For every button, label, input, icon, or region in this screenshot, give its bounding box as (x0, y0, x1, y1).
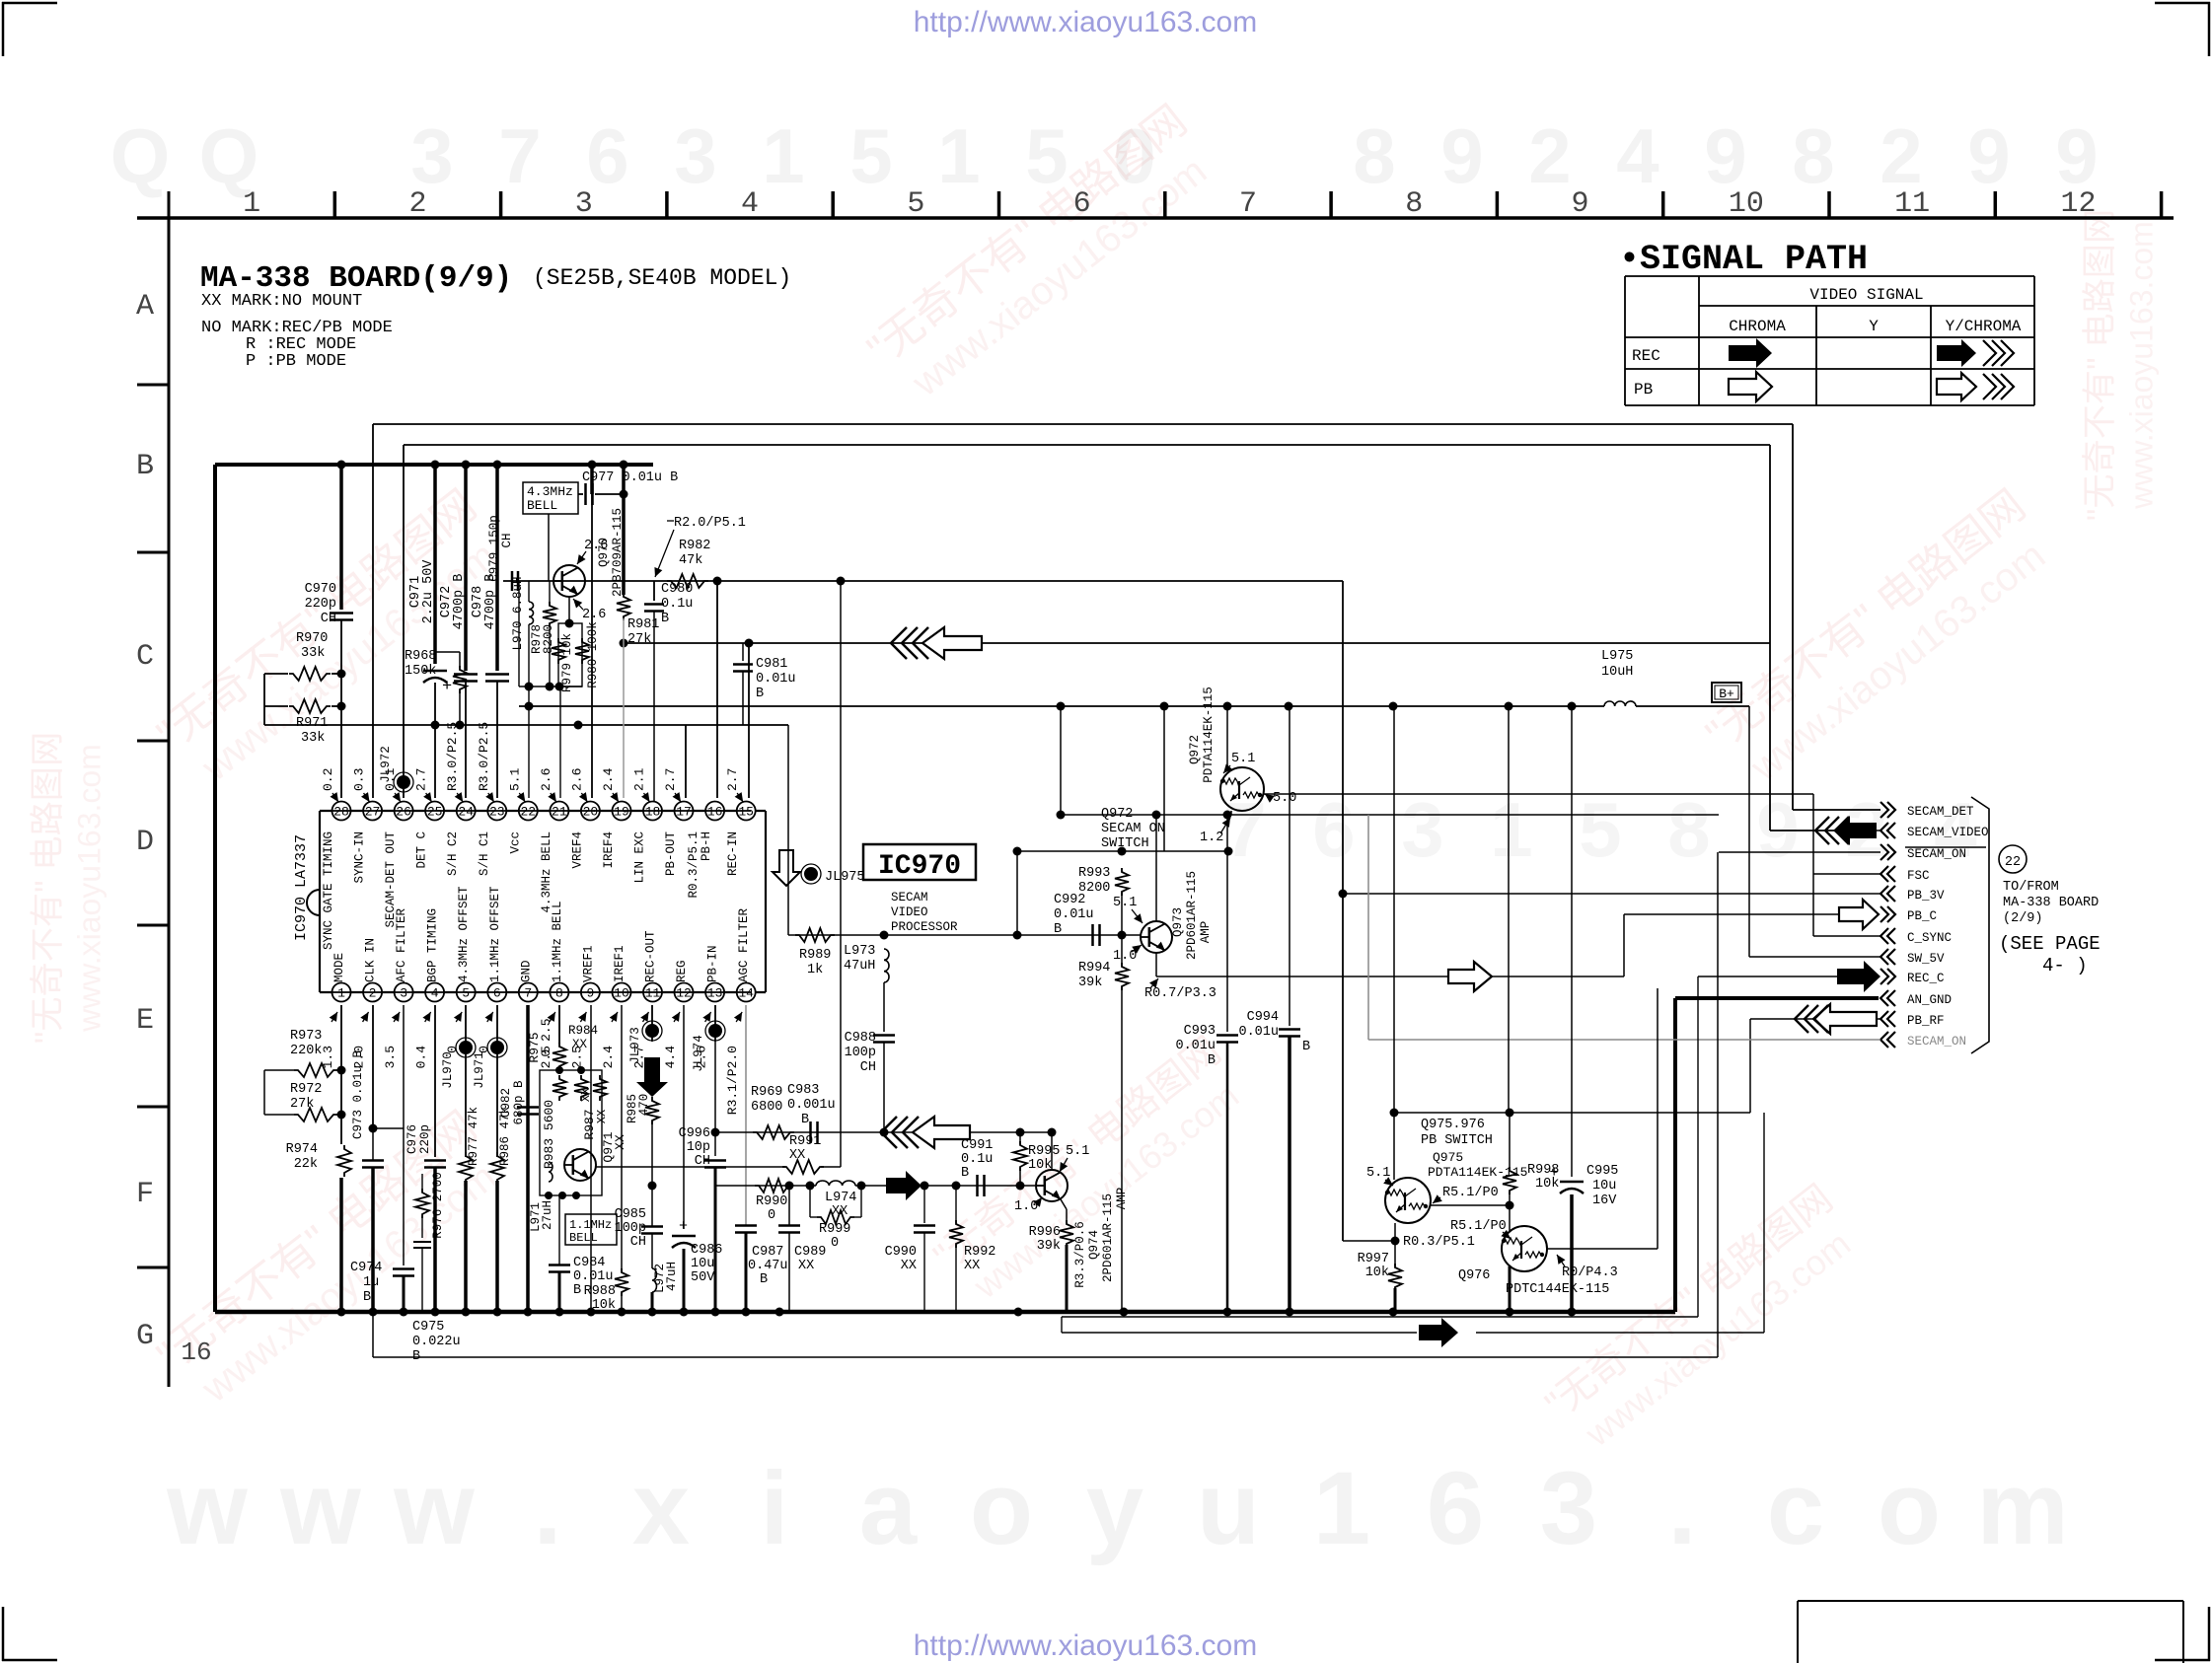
pin 23 (487, 802, 506, 821)
svg-text:Vcc: Vcc (508, 831, 522, 854)
capacitor C979 150p CH (487, 515, 518, 591)
pin 10 name IREF1 (613, 945, 627, 982)
wire pin14 column down gray (745, 1005, 747, 1225)
watermark ghost digits top row (111, 112, 2099, 199)
svg-text:0.1u: 0.1u (661, 597, 693, 612)
connector chevron SECAM_VIDEO at y=842 (1880, 823, 1989, 839)
wire vertical x852 (840, 581, 842, 1167)
pin 13 (705, 983, 724, 1002)
svg-text:JL975: JL975 (825, 870, 865, 885)
svg-text:4- ): 4- ) (2042, 955, 2088, 976)
JL973 test point (628, 1021, 662, 1064)
svg-text:24: 24 (458, 805, 474, 820)
pin 19 name IREF4 (602, 831, 616, 869)
Q973 collector wire (1152, 811, 1161, 922)
svg-text:B+: B+ (1719, 687, 1734, 701)
svg-text:"无奇不有" 电路图网: "无奇不有" 电路图网 (2081, 209, 2119, 521)
svg-text:10: 10 (614, 986, 629, 1001)
svg-text:R972: R972 (290, 1082, 322, 1097)
bell filter box 1.1MHz BELL (565, 1214, 617, 1245)
pin 12 (675, 983, 694, 1002)
svg-text:+: + (1549, 1164, 1559, 1182)
svg-text:XX: XX (595, 1110, 609, 1123)
bell cluster top dots (555, 1066, 585, 1074)
pin 25 (425, 802, 444, 821)
svg-text:AMP: AMP (1115, 1188, 1129, 1210)
svg-text:2.6: 2.6 (582, 608, 606, 622)
capacitor C971 2.2u 50V (408, 465, 452, 725)
Q973 emitter wire (1155, 953, 1157, 976)
wire C975 loop (373, 852, 1718, 1357)
svg-text:0.01u: 0.01u (756, 672, 796, 687)
svg-text:3: 3 (1540, 1451, 1597, 1566)
svg-text:Q975.976: Q975.976 (1421, 1118, 1485, 1132)
wire SECAM_VIDEO long (620, 639, 1771, 831)
pin 16 (705, 802, 724, 821)
resistor R983 5600 (542, 1075, 566, 1169)
wire pin7 GND column (526, 1005, 530, 1312)
Q974 voltage 5.1 (1060, 1144, 1089, 1172)
svg-text:Y: Y (1869, 318, 1879, 335)
wire Q975 base row R5.1/P0 (1431, 1201, 1514, 1210)
resistor R977 47k (459, 1107, 480, 1312)
svg-text:REC: REC (1632, 347, 1660, 365)
svg-text:www.xiaoyu163.com: www.xiaoyu163.com (72, 744, 108, 1033)
open right arrow on PB_C wire (1448, 962, 1492, 991)
table row label PB (1634, 381, 1653, 398)
wire REC_C row (1698, 976, 1837, 977)
pin 6 (487, 983, 506, 1002)
wire Q976 emitter to bus (1509, 1266, 1512, 1312)
table PB y/chroma open arrow with chevrons (1937, 373, 2014, 400)
inductor L970 6.8uH (511, 576, 534, 798)
svg-text:PB_C: PB_C (1907, 909, 1937, 923)
row letter ticks (137, 385, 169, 1267)
svg-text:m: m (1976, 1451, 2068, 1566)
svg-text:CH: CH (500, 533, 514, 547)
row ruler left line (168, 191, 171, 1387)
svg-text:16: 16 (181, 1338, 211, 1367)
Q974 voltage 1.0 (1014, 1197, 1042, 1214)
svg-text:3: 3 (1401, 786, 1443, 873)
svg-text:Q975: Q975 (1433, 1150, 1463, 1165)
svg-text:9: 9 (586, 986, 594, 1001)
svg-text:x: x (632, 1451, 690, 1566)
resistor R988 10k (584, 1268, 628, 1313)
svg-text:1: 1 (937, 112, 980, 199)
svg-text:1: 1 (1490, 786, 1532, 873)
inductor L974 XX (816, 1181, 856, 1219)
pin 17 voltage 2.7 (663, 768, 681, 802)
wire pin16 column PB-H (716, 581, 718, 798)
capacitor C970 220p CH (305, 465, 353, 657)
svg-text:8200: 8200 (542, 624, 555, 654)
pin 5 name 4.3MHz OFFSET (457, 886, 471, 982)
pin 13 voltage 2.6 (695, 1012, 711, 1068)
svg-text:VREF4: VREF4 (570, 831, 584, 869)
svg-text:C990: C990 (885, 1245, 917, 1260)
svg-text:C977 0.01u B: C977 0.01u B (582, 470, 678, 485)
capacitor C993 0.01u B (1175, 815, 1238, 1312)
capacitor C980 0.1u B (644, 581, 693, 804)
wire PB_C row from Q973 (1156, 914, 1843, 976)
wire vertical x1180 from B+ rail (1163, 706, 1165, 851)
connector chevron C_SYNC at y=949 (1880, 928, 1952, 945)
svg-text:7: 7 (1239, 187, 1257, 221)
svg-text:XX MARK:NO MOUNT: XX MARK:NO MOUNT (201, 292, 362, 311)
connector chevron SECAM_DET at y=821 (1880, 802, 1974, 819)
B+ box label (1712, 683, 1741, 702)
junction dot L973 top (880, 931, 889, 940)
svg-text:Y/CHROMA: Y/CHROMA (1946, 318, 2022, 335)
svg-text:33k: 33k (301, 646, 325, 661)
capacitor C973 0.01u B (351, 1049, 384, 1312)
wire B+ to R998 column (1506, 706, 1514, 1118)
resistor R985 470 (626, 1094, 659, 1191)
pin 6 voltage 0 (477, 1012, 493, 1053)
IC970 SECAM VIDEO PROCESSOR label (891, 891, 958, 934)
wire pin9 column down (590, 1005, 592, 1312)
svg-text:17: 17 (676, 805, 692, 820)
Q972 voltage 5.0 (1265, 791, 1296, 806)
resistor R981 27k (617, 465, 659, 798)
svg-text:R980 100k: R980 100k (586, 621, 600, 688)
svg-text:C975: C975 (412, 1320, 444, 1335)
svg-text:3: 3 (674, 112, 716, 199)
pin 19 (613, 802, 631, 821)
svg-text:R970: R970 (296, 631, 328, 646)
wire pin18 column (653, 621, 655, 798)
svg-text:BGP TIMING: BGP TIMING (426, 908, 440, 982)
svg-text:27uH: 27uH (541, 1200, 554, 1230)
page number 16 (181, 1338, 211, 1367)
svg-text:2.4: 2.4 (601, 1046, 616, 1069)
svg-text:•SIGNAL PATH: •SIGNAL PATH (1619, 240, 1868, 279)
table header VIDEO SIGNAL (1809, 286, 1923, 304)
Q972 voltage 1.2 (1200, 818, 1230, 845)
pin 5 voltage 0 (445, 1012, 462, 1053)
wire R982 row to right corner (503, 581, 1343, 1241)
svg-text:PB-OUT: PB-OUT (664, 831, 678, 877)
transistor Q974 2PD601AR-115 AMP (1036, 1170, 1129, 1288)
wire pin28 column up (340, 725, 342, 798)
ground bus heavy (215, 1310, 1675, 1315)
pin 25 name DET C (415, 831, 429, 869)
junction dots on B+ distribution rail (525, 702, 1577, 711)
wire pin27 full column (372, 424, 374, 798)
svg-text:2PD601AR-115: 2PD601AR-115 (1185, 871, 1199, 960)
svg-text:Q973: Q973 (1171, 907, 1185, 937)
svg-text:PB: PB (1634, 381, 1653, 398)
pin 1 name MODE (332, 953, 346, 982)
svg-text:http://www.xiaoyu163.com: http://www.xiaoyu163.com (914, 6, 1258, 38)
column ruler line (137, 216, 2174, 220)
svg-text:R990: R990 (756, 1194, 787, 1209)
pin connecting bar bottom row (327, 991, 751, 993)
wire R969 C983 row (715, 1131, 1048, 1133)
svg-text:XX: XX (572, 1038, 588, 1051)
svg-text:1.1MHz OFFSET: 1.1MHz OFFSET (488, 886, 502, 982)
svg-text:2.6: 2.6 (539, 768, 553, 791)
resistor R990 0 (755, 1179, 792, 1223)
capacitor C976 220p (406, 1124, 446, 1312)
capacitor C992 0.01u B (1054, 893, 1100, 946)
resistor R984 XX (568, 1024, 598, 1102)
solid right arrow lower row (886, 1171, 922, 1200)
svg-text:47uH: 47uH (665, 1262, 679, 1291)
svg-text:C970: C970 (305, 582, 336, 597)
svg-text:C982: C982 (499, 1088, 513, 1118)
svg-text:1: 1 (337, 986, 345, 1001)
capacitor C977 0.01u B (578, 465, 678, 505)
pin 9 voltage 2.5 (569, 1012, 586, 1068)
svg-text:A: A (136, 290, 154, 324)
legend XX MARK:NO MOUNT (201, 292, 362, 311)
svg-text:PB-IN: PB-IN (706, 945, 720, 982)
svg-text:.: . (533, 1451, 561, 1566)
svg-text:R979 10k: R979 10k (560, 633, 574, 692)
wire SECAM_ON feed row (1057, 811, 1720, 820)
resistor R982 47k (667, 539, 710, 588)
svg-text:IREF1: IREF1 (613, 945, 627, 982)
capacitor C975 0.022u B label (412, 1320, 461, 1364)
connector chevron AN_GND at y=1012 (1880, 990, 1952, 1007)
svg-text:3.5: 3.5 (383, 1046, 398, 1068)
svg-text:R3.0/P2.5: R3.0/P2.5 (445, 722, 460, 791)
svg-text:7: 7 (498, 112, 541, 199)
svg-text:o: o (1878, 1451, 1941, 1566)
svg-text:w: w (279, 1451, 361, 1566)
IC970 internal name label (293, 834, 310, 941)
corner bracket bottom-right (2155, 1607, 2210, 1661)
svg-text:33k: 33k (301, 731, 325, 746)
pin 18 (643, 802, 662, 821)
svg-text:JL972: JL972 (379, 746, 393, 783)
svg-text:MA-338 BOARD: MA-338 BOARD (2003, 896, 2099, 910)
pin 9 (581, 983, 600, 1002)
resistor R992 XX (949, 1186, 995, 1312)
svg-text:w: w (393, 1451, 475, 1566)
signal path heading (1619, 240, 1868, 279)
svg-text:R971: R971 (296, 716, 328, 731)
svg-text:R994: R994 (1078, 961, 1110, 976)
wire Q975 emitter node (1343, 1223, 1400, 1246)
svg-text:0.4: 0.4 (414, 1046, 429, 1069)
wire SECAM_VIDEO arrows (1770, 816, 1880, 845)
svg-text:4.4: 4.4 (663, 1046, 678, 1069)
svg-text:22k: 22k (294, 1157, 318, 1172)
svg-text:Q972: Q972 (1188, 735, 1202, 764)
svg-text:R0.7/P3.3: R0.7/P3.3 (1144, 986, 1217, 1001)
junction dots on above-IC wire (431, 721, 583, 730)
wire pin19 column (623, 643, 625, 798)
cluster bottom rail (519, 683, 582, 691)
pin 17 (675, 802, 694, 821)
svg-text:9: 9 (2055, 112, 2098, 199)
svg-text:0.3: 0.3 (352, 768, 367, 791)
svg-text:REC-OUT: REC-OUT (644, 930, 658, 982)
bell cluster box (540, 1070, 602, 1195)
svg-text:SWITCH: SWITCH (1101, 836, 1149, 851)
wire Q976 base from R5.1 node (1509, 1205, 1511, 1231)
svg-text:28: 28 (333, 805, 349, 820)
pin 23 voltage R3.0/P2.5 (477, 722, 494, 802)
svg-text:14: 14 (738, 986, 754, 1001)
connector chevron PB_C at y=927 (1880, 906, 1937, 923)
pin connecting bar top row (327, 810, 751, 812)
svg-text:C991: C991 (961, 1138, 993, 1153)
svg-text:B: B (961, 1166, 969, 1181)
wire pin26 to second top wire (404, 445, 1770, 643)
svg-text:R999: R999 (819, 1222, 850, 1237)
svg-text:8: 8 (1353, 112, 1395, 199)
svg-text:C996: C996 (679, 1126, 710, 1141)
pin 8 (550, 983, 568, 1002)
svg-text:C989: C989 (794, 1245, 826, 1260)
svg-text:47k: 47k (679, 553, 702, 568)
watermark ghost url bottom (166, 1451, 2069, 1566)
svg-text:GND: GND (519, 960, 533, 982)
Q970 emitter to parallel box (565, 597, 574, 628)
resistor R969 6800 (751, 1085, 794, 1139)
svg-text:7: 7 (1223, 786, 1266, 873)
wire SECAM_ON row (1719, 851, 1880, 853)
svg-text:2: 2 (408, 187, 426, 221)
wire pin12 column down (683, 1005, 685, 1229)
svg-text:0.022u: 0.022u (412, 1335, 461, 1349)
connector number 22 (1999, 845, 2027, 873)
connector chevron SECAM_ON at y=1054 (1880, 1032, 1966, 1048)
B+ distribution rail (519, 705, 1749, 707)
Q974 collector wire (1048, 1128, 1057, 1171)
svg-text:L970 6.8uH: L970 6.8uH (511, 576, 525, 650)
svg-text:0.1u: 0.1u (961, 1152, 993, 1167)
watermark blue url top (914, 6, 1258, 38)
svg-text:21: 21 (552, 805, 567, 820)
pin 15 voltage 2.7 (725, 768, 743, 802)
open left arrow triple chevron mid (881, 1117, 970, 1148)
capacitor C984 0.01u B (549, 1195, 614, 1312)
capacitor C985 100p CH (615, 1186, 663, 1268)
junction dots on B+ rail (337, 461, 628, 470)
svg-text:B: B (1208, 1053, 1216, 1068)
IC970 body (307, 811, 766, 992)
wire REC_C vertical from below bus (1697, 976, 1699, 1317)
svg-text:B: B (136, 450, 154, 483)
connector TO/FROM label (2003, 880, 2099, 926)
table PB chroma open arrow (1729, 372, 1772, 401)
svg-text:C987: C987 (752, 1245, 783, 1260)
svg-text:+: + (442, 678, 452, 696)
svg-text:6: 6 (586, 112, 628, 199)
column ruler numbers 1-12 (243, 187, 2096, 221)
pin 14 (737, 983, 756, 1002)
capacitor C983 0.001u B (787, 1083, 836, 1143)
pin 26 name SECAM-DET OUT (384, 831, 398, 928)
svg-text:C995: C995 (1586, 1164, 1618, 1179)
svg-text:5: 5 (462, 986, 470, 1001)
svg-text:5.1: 5.1 (1113, 896, 1137, 910)
svg-text:R3.0/P2.5: R3.0/P2.5 (477, 722, 491, 791)
transistor Q973 2PD601AR-115 AMP (1141, 871, 1213, 960)
svg-text:C: C (136, 640, 154, 674)
svg-text:Q974: Q974 (1087, 1230, 1101, 1260)
resistor R975 0 (527, 1018, 566, 1070)
svg-text:0.01u: 0.01u (1175, 1039, 1216, 1053)
wire REC path below bus upper (1062, 1317, 1698, 1333)
svg-text:C981: C981 (756, 657, 787, 672)
svg-text:XX: XX (613, 1134, 627, 1150)
pin 27 voltage 0.3 (352, 768, 370, 802)
svg-text:3: 3 (400, 986, 407, 1001)
resistor R971 33k (264, 699, 341, 746)
svg-text:PB_3V: PB_3V (1907, 889, 1945, 903)
svg-text:C985: C985 (615, 1207, 646, 1222)
table header Y/CHROMA (1946, 318, 2022, 335)
wire pin26 full column (403, 445, 405, 798)
svg-text:L975: L975 (1601, 649, 1633, 664)
svg-text:4: 4 (431, 986, 439, 1001)
svg-text:o: o (970, 1451, 1033, 1566)
svg-text:23: 23 (489, 805, 505, 820)
JL975 test point (801, 864, 865, 885)
pin 1 (332, 983, 351, 1002)
corner bracket top-right (2155, 2, 2210, 56)
pin 7 name GND (519, 960, 533, 982)
svg-text:5: 5 (907, 187, 924, 221)
svg-text:3: 3 (410, 112, 453, 199)
svg-text:R988: R988 (584, 1284, 616, 1299)
svg-text:R5.1/P0: R5.1/P0 (1450, 1219, 1507, 1234)
svg-text:PB SWITCH: PB SWITCH (1421, 1133, 1493, 1148)
resistor R976 2700 (413, 1172, 445, 1312)
svg-text:16: 16 (707, 805, 723, 820)
svg-text:150k: 150k (405, 664, 436, 679)
resistor R968 150k (405, 649, 467, 725)
svg-text:JL973: JL973 (628, 1027, 642, 1064)
IC970 reference label box (863, 844, 976, 882)
capacitor C986 10u 50V (672, 1218, 722, 1312)
pin 23 name S/H C1 (478, 831, 491, 876)
connector bracket (1971, 797, 1989, 1053)
Q973 voltage 5.1 (1113, 896, 1143, 923)
svg-text:C974: C974 (350, 1261, 382, 1275)
svg-text:8: 8 (1667, 786, 1710, 873)
svg-text:JL970: JL970 (441, 1051, 455, 1089)
svg-text:SYNC GATE TIMING: SYNC GATE TIMING (322, 831, 335, 950)
pin 2 voltage 2.0 (352, 1012, 369, 1068)
row letters A-G (136, 290, 154, 1353)
column ruler ticks (334, 191, 2161, 218)
svg-text:+: + (679, 1218, 688, 1235)
svg-text:1: 1 (243, 187, 260, 221)
watermark blue url bottom (914, 1629, 1258, 1662)
pin 25 voltage 2.7 (414, 768, 432, 802)
pin 15 name REC-IN (726, 831, 740, 876)
svg-text:19: 19 (614, 805, 629, 820)
wire pin5 column down (465, 1005, 467, 1157)
pin 17 name PB-OUT (664, 831, 678, 877)
svg-text:1: 1 (1313, 1451, 1370, 1566)
pin 28 voltage 0.2 (321, 768, 338, 802)
svg-text:6: 6 (1073, 187, 1091, 221)
transistor Q972 PDTA114EK-115 SECAM ON SWITCH (1220, 706, 1264, 811)
svg-text:8: 8 (1792, 112, 1834, 199)
wire lower signal row (715, 1185, 1035, 1187)
svg-text:w: w (166, 1451, 248, 1566)
svg-text:AGC FILTER: AGC FILTER (737, 907, 751, 982)
svg-text:12: 12 (2060, 187, 2096, 221)
